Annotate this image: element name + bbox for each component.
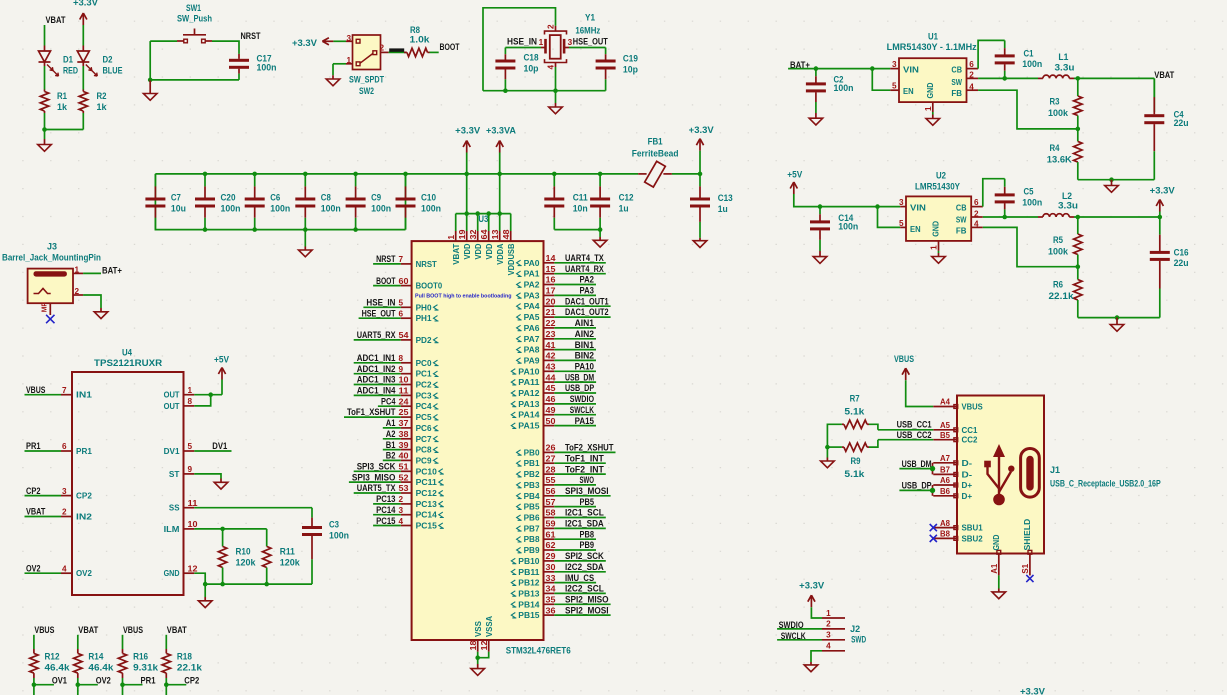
- svg-text:A5: A5: [940, 421, 950, 430]
- svg-text:ToF2_INT: ToF2_INT: [565, 464, 604, 474]
- svg-text:53: 53: [399, 484, 409, 493]
- svg-text:OUT: OUT: [164, 402, 180, 411]
- svg-text:LMR51430Y - 1.1MHz: LMR51430Y - 1.1MHz: [887, 42, 978, 52]
- svg-text:5: 5: [892, 82, 897, 91]
- svg-text:USB_CC2: USB_CC2: [897, 430, 932, 440]
- svg-text:PA14: PA14: [518, 411, 540, 420]
- svg-text:+3.3V: +3.3V: [455, 126, 480, 136]
- svg-text:10: 10: [188, 520, 198, 529]
- svg-text:U4: U4: [122, 348, 132, 358]
- svg-text:EN: EN: [910, 225, 921, 234]
- svg-text:PC3: PC3: [416, 391, 432, 400]
- svg-text:C8: C8: [321, 193, 331, 203]
- svg-text:21: 21: [546, 308, 556, 317]
- svg-text:CC2: CC2: [962, 436, 978, 445]
- svg-text:1k: 1k: [57, 102, 67, 112]
- svg-text:VIN: VIN: [903, 65, 919, 74]
- svg-text:+3.3V: +3.3V: [799, 580, 824, 590]
- svg-text:USB_DP: USB_DP: [902, 481, 932, 491]
- svg-text:16: 16: [546, 276, 556, 285]
- svg-text:12: 12: [480, 640, 489, 650]
- svg-text:A6: A6: [940, 476, 950, 485]
- svg-text:D1: D1: [63, 55, 73, 65]
- svg-text:L2: L2: [1062, 191, 1072, 201]
- svg-text:SPI3_MISO: SPI3_MISO: [352, 472, 396, 482]
- svg-text:PA3: PA3: [580, 286, 595, 296]
- svg-text:SPI2_MISO: SPI2_MISO: [565, 595, 609, 605]
- svg-text:PB15: PB15: [518, 611, 540, 620]
- svg-text:FB: FB: [951, 89, 962, 98]
- svg-text:Barrel_Jack_MountingPin: Barrel_Jack_MountingPin: [2, 252, 101, 262]
- svg-text:PA2: PA2: [580, 275, 595, 285]
- svg-text:SW: SW: [956, 215, 967, 224]
- svg-text:VBAT: VBAT: [1154, 70, 1175, 80]
- svg-text:+3.3V: +3.3V: [1150, 185, 1175, 195]
- svg-text:3: 3: [892, 60, 897, 69]
- svg-text:PC14: PC14: [416, 511, 438, 520]
- svg-text:15: 15: [546, 265, 556, 274]
- svg-text:2: 2: [380, 44, 385, 53]
- svg-text:NRST: NRST: [241, 31, 262, 41]
- svg-text:R9: R9: [851, 456, 861, 466]
- svg-text:VDD: VDD: [474, 243, 483, 259]
- svg-text:R6: R6: [1053, 280, 1063, 290]
- svg-text:AIN1: AIN1: [575, 318, 594, 328]
- svg-text:SW: SW: [951, 78, 962, 87]
- svg-text:2: 2: [399, 495, 404, 504]
- svg-text:38: 38: [399, 430, 409, 439]
- svg-text:DAC1_OUT1: DAC1_OUT1: [565, 296, 609, 306]
- svg-text:OV2: OV2: [26, 563, 41, 573]
- svg-text:J2: J2: [850, 624, 860, 634]
- svg-text:PC15: PC15: [376, 516, 395, 526]
- svg-text:+5V: +5V: [787, 170, 802, 180]
- svg-text:8: 8: [399, 354, 404, 363]
- svg-text:39: 39: [399, 441, 409, 450]
- svg-text:C18: C18: [524, 52, 539, 62]
- svg-text:VBUS: VBUS: [123, 625, 143, 635]
- svg-text:40: 40: [399, 452, 409, 461]
- svg-text:ToF2_XSHUT: ToF2_XSHUT: [565, 443, 614, 453]
- svg-text:C6: C6: [270, 193, 280, 203]
- svg-text:1: 1: [539, 38, 544, 47]
- svg-text:PA6: PA6: [524, 324, 540, 333]
- svg-text:R7: R7: [850, 393, 860, 403]
- svg-text:U1: U1: [928, 32, 938, 42]
- svg-text:C16: C16: [1174, 248, 1189, 258]
- svg-text:100n: 100n: [371, 204, 391, 214]
- svg-text:59: 59: [546, 520, 556, 529]
- svg-text:BIN1: BIN1: [575, 340, 594, 350]
- svg-text:OV2: OV2: [96, 676, 111, 686]
- svg-text:USB_DM: USB_DM: [565, 372, 594, 382]
- svg-text:PC14: PC14: [376, 505, 395, 515]
- svg-text:PC11: PC11: [416, 478, 438, 487]
- svg-text:I2C2_SCL: I2C2_SCL: [565, 584, 604, 594]
- svg-text:100n: 100n: [257, 62, 277, 72]
- svg-text:B8: B8: [940, 530, 950, 539]
- svg-text:A7: A7: [940, 454, 950, 463]
- svg-text:PC1: PC1: [416, 370, 432, 379]
- svg-text:VDD: VDD: [485, 243, 494, 259]
- svg-text:PA12: PA12: [518, 389, 540, 398]
- svg-text:LMR51430Y: LMR51430Y: [915, 182, 960, 192]
- svg-text:PR1: PR1: [141, 676, 156, 686]
- svg-text:PA3: PA3: [524, 291, 540, 300]
- svg-text:1: 1: [75, 265, 80, 274]
- svg-text:C13: C13: [718, 193, 733, 203]
- svg-text:5.1k: 5.1k: [844, 407, 864, 417]
- svg-text:PC2: PC2: [416, 381, 432, 390]
- svg-text:23: 23: [546, 330, 556, 339]
- svg-text:46: 46: [546, 395, 556, 404]
- svg-text:PB11: PB11: [518, 568, 540, 577]
- svg-text:VBAT: VBAT: [78, 625, 99, 635]
- svg-text:22: 22: [546, 319, 556, 328]
- svg-text:43: 43: [546, 363, 556, 372]
- svg-text:6: 6: [399, 309, 404, 318]
- svg-text:CC1: CC1: [962, 426, 978, 435]
- svg-text:VBAT: VBAT: [46, 15, 67, 25]
- svg-text:10p: 10p: [524, 64, 540, 74]
- svg-text:SPI2_MOSI: SPI2_MOSI: [565, 605, 609, 615]
- svg-text:3: 3: [399, 506, 404, 515]
- svg-text:EN: EN: [903, 87, 914, 96]
- svg-text:VSSA: VSSA: [485, 616, 494, 637]
- svg-text:USB_DM: USB_DM: [902, 459, 932, 469]
- svg-text:10p: 10p: [623, 64, 639, 74]
- svg-text:PB5: PB5: [524, 503, 540, 512]
- svg-text:22u: 22u: [1174, 118, 1189, 128]
- svg-text:1.0k: 1.0k: [410, 34, 430, 44]
- svg-text:100n: 100n: [421, 204, 441, 214]
- svg-text:VBAT: VBAT: [452, 243, 461, 264]
- svg-text:R16: R16: [133, 652, 148, 662]
- svg-text:PA11: PA11: [518, 378, 540, 387]
- svg-text:PB3: PB3: [524, 481, 540, 490]
- svg-text:CP2: CP2: [26, 486, 41, 496]
- svg-text:6: 6: [974, 198, 979, 207]
- svg-text:120k: 120k: [280, 558, 300, 568]
- svg-text:2: 2: [969, 71, 974, 80]
- svg-text:56: 56: [546, 487, 556, 496]
- svg-text:+5V: +5V: [214, 355, 229, 365]
- svg-text:50: 50: [546, 417, 556, 426]
- svg-text:PA15: PA15: [575, 416, 594, 426]
- svg-text:27: 27: [546, 454, 556, 463]
- svg-text:62: 62: [546, 541, 556, 550]
- svg-text:PH1: PH1: [416, 314, 432, 323]
- svg-text:VBUS: VBUS: [894, 354, 914, 364]
- svg-text:46.4k: 46.4k: [88, 662, 113, 672]
- svg-text:PB9: PB9: [580, 540, 595, 550]
- svg-text:3: 3: [62, 487, 67, 496]
- svg-text:SWCLK: SWCLK: [570, 405, 595, 415]
- svg-text:26: 26: [546, 444, 556, 453]
- svg-text:C9: C9: [371, 193, 381, 203]
- svg-text:+3.3V: +3.3V: [1020, 686, 1045, 695]
- svg-text:BOOT: BOOT: [440, 42, 460, 52]
- svg-text:SPI2_SCK: SPI2_SCK: [565, 551, 604, 561]
- svg-text:B6: B6: [940, 487, 950, 496]
- svg-text:SW_SPDT: SW_SPDT: [349, 75, 385, 85]
- svg-text:6: 6: [969, 60, 974, 69]
- svg-text:22.1k: 22.1k: [177, 662, 202, 672]
- svg-text:7: 7: [399, 255, 404, 264]
- svg-text:UART5_RX: UART5_RX: [357, 330, 396, 340]
- svg-text:C10: C10: [421, 193, 436, 203]
- svg-text:100n: 100n: [270, 204, 290, 214]
- svg-text:1: 1: [930, 245, 939, 250]
- svg-text:41: 41: [546, 341, 556, 350]
- svg-text:HSE_OUT: HSE_OUT: [573, 37, 609, 47]
- svg-text:C7: C7: [171, 193, 181, 203]
- svg-text:J1: J1: [1050, 465, 1060, 475]
- svg-text:PB8: PB8: [524, 535, 540, 544]
- svg-text:U2: U2: [936, 171, 946, 181]
- svg-text:+3.3V: +3.3V: [73, 0, 98, 8]
- svg-text:34: 34: [546, 585, 556, 594]
- svg-text:D-: D-: [962, 459, 973, 468]
- svg-text:100n: 100n: [329, 530, 349, 540]
- svg-text:A2: A2: [386, 429, 396, 439]
- svg-text:33: 33: [546, 574, 556, 583]
- svg-text:11: 11: [188, 499, 199, 508]
- svg-text:CB: CB: [951, 65, 962, 74]
- svg-text:B1: B1: [386, 440, 396, 450]
- svg-text:PA7: PA7: [524, 335, 540, 344]
- svg-text:49: 49: [546, 406, 556, 415]
- svg-text:PR1: PR1: [26, 441, 41, 451]
- svg-text:I2C2_SDA: I2C2_SDA: [565, 562, 604, 572]
- svg-text:C12: C12: [619, 192, 634, 202]
- svg-text:PC12: PC12: [416, 489, 438, 498]
- svg-text:GND: GND: [992, 534, 1001, 550]
- svg-text:2: 2: [547, 24, 556, 29]
- svg-text:DV1: DV1: [164, 447, 180, 456]
- svg-text:UART5_TX: UART5_TX: [357, 483, 396, 493]
- svg-text:SBU2: SBU2: [962, 534, 984, 543]
- svg-text:1: 1: [346, 56, 351, 65]
- svg-text:4: 4: [969, 83, 974, 92]
- svg-text:USB_DP: USB_DP: [565, 383, 594, 393]
- svg-text:PB14: PB14: [518, 600, 540, 609]
- svg-text:ILM: ILM: [164, 525, 180, 534]
- svg-text:CP2: CP2: [76, 492, 92, 501]
- svg-text:PA0: PA0: [524, 259, 540, 268]
- svg-text:2: 2: [826, 620, 831, 629]
- svg-text:A1: A1: [990, 563, 999, 573]
- svg-text:17: 17: [546, 287, 556, 296]
- svg-text:C20: C20: [221, 193, 236, 203]
- svg-text:PB5: PB5: [580, 497, 595, 507]
- svg-text:B5: B5: [940, 431, 950, 440]
- svg-text:51: 51: [399, 463, 409, 472]
- svg-text:ADC1_IN3: ADC1_IN3: [357, 375, 396, 385]
- svg-text:PA15: PA15: [518, 422, 540, 431]
- svg-text:R5: R5: [1053, 235, 1063, 245]
- svg-text:ToF1_INT: ToF1_INT: [565, 453, 604, 463]
- svg-text:PB13: PB13: [518, 589, 540, 598]
- svg-text:D2: D2: [103, 55, 113, 65]
- svg-text:60: 60: [399, 277, 409, 286]
- svg-text:Y1: Y1: [585, 13, 595, 23]
- svg-text:100k: 100k: [1048, 246, 1068, 256]
- svg-text:R12: R12: [45, 652, 60, 662]
- svg-text:4: 4: [826, 642, 831, 651]
- svg-text:9: 9: [188, 465, 193, 474]
- svg-text:A8: A8: [940, 519, 950, 528]
- svg-text:28: 28: [546, 465, 556, 474]
- svg-text:13: 13: [491, 229, 500, 239]
- svg-text:1: 1: [447, 235, 456, 240]
- svg-text:CB: CB: [956, 203, 967, 212]
- svg-text:S1: S1: [1021, 563, 1030, 573]
- svg-text:DV1: DV1: [212, 441, 227, 451]
- svg-text:54: 54: [399, 331, 409, 340]
- svg-text:RED: RED: [63, 66, 78, 76]
- svg-text:B2: B2: [386, 451, 396, 461]
- svg-text:37: 37: [399, 419, 409, 428]
- svg-text:7: 7: [62, 386, 67, 395]
- svg-text:22.1k: 22.1k: [1049, 291, 1074, 301]
- svg-text:2: 2: [62, 508, 67, 517]
- svg-text:A4: A4: [940, 398, 950, 407]
- svg-text:AIN2: AIN2: [575, 329, 594, 339]
- svg-text:C5: C5: [1024, 187, 1034, 197]
- svg-text:PC7: PC7: [416, 435, 432, 444]
- svg-text:OV1: OV1: [52, 676, 67, 686]
- svg-text:PC6: PC6: [416, 424, 432, 433]
- svg-text:VIN: VIN: [910, 203, 926, 212]
- svg-text:C1: C1: [1024, 49, 1034, 59]
- svg-text:OV2: OV2: [76, 569, 92, 578]
- svg-text:B7: B7: [940, 466, 950, 475]
- svg-text:5: 5: [188, 442, 193, 451]
- svg-text:PC0: PC0: [416, 359, 432, 368]
- svg-text:VDDA: VDDA: [496, 243, 505, 264]
- svg-text:29: 29: [546, 552, 556, 561]
- svg-text:100n: 100n: [221, 204, 241, 214]
- svg-text:PC13: PC13: [376, 494, 395, 504]
- svg-text:VSS: VSS: [474, 620, 483, 637]
- svg-text:VBUS: VBUS: [962, 403, 984, 412]
- svg-text:SBU1: SBU1: [962, 524, 984, 533]
- svg-text:HSE_OUT: HSE_OUT: [362, 308, 396, 318]
- svg-text:9: 9: [399, 365, 404, 374]
- svg-text:SW1: SW1: [186, 3, 201, 13]
- svg-text:12: 12: [188, 564, 198, 573]
- svg-text:UART4_RX: UART4_RX: [565, 264, 604, 274]
- svg-text:SS: SS: [169, 504, 180, 513]
- svg-text:VDD: VDD: [463, 243, 472, 259]
- svg-text:PB0: PB0: [524, 448, 540, 457]
- svg-text:PB1: PB1: [524, 459, 540, 468]
- svg-text:+3.3V: +3.3V: [689, 125, 714, 135]
- svg-text:R14: R14: [88, 652, 103, 662]
- svg-text:C11: C11: [573, 192, 588, 202]
- svg-text:45: 45: [546, 384, 556, 393]
- svg-text:FB: FB: [956, 226, 967, 235]
- svg-text:PC5: PC5: [416, 413, 432, 422]
- svg-text:SHIELD: SHIELD: [1023, 518, 1032, 550]
- svg-text:PA13: PA13: [518, 400, 540, 409]
- svg-text:PB2: PB2: [524, 470, 540, 479]
- svg-text:I2C1_SCL: I2C1_SCL: [565, 508, 604, 518]
- svg-text:100n: 100n: [838, 222, 858, 232]
- svg-text:VBAT: VBAT: [167, 625, 188, 635]
- svg-text:R2: R2: [97, 91, 107, 101]
- svg-text:PB12: PB12: [518, 579, 540, 588]
- svg-text:5: 5: [899, 219, 904, 228]
- svg-text:L1: L1: [1058, 52, 1068, 62]
- svg-text:52: 52: [399, 473, 409, 482]
- svg-text:PB10: PB10: [518, 557, 540, 566]
- svg-text:ADC1_IN2: ADC1_IN2: [357, 364, 396, 374]
- svg-text:24: 24: [399, 397, 409, 406]
- svg-text:16MHz: 16MHz: [575, 26, 601, 36]
- svg-text:UART4_TX: UART4_TX: [565, 253, 604, 263]
- svg-text:PB8: PB8: [580, 529, 595, 539]
- svg-text:PA4: PA4: [524, 302, 540, 311]
- svg-text:I2C1_SDA: I2C1_SDA: [565, 519, 604, 529]
- svg-text:+3.3V: +3.3V: [292, 38, 317, 48]
- svg-text:5.1k: 5.1k: [844, 469, 864, 479]
- svg-text:35: 35: [546, 596, 556, 605]
- svg-text:BOOT0: BOOT0: [416, 282, 443, 291]
- svg-text:SW2: SW2: [359, 86, 374, 96]
- svg-text:PC13: PC13: [416, 500, 438, 509]
- svg-text:VBAT: VBAT: [26, 507, 46, 517]
- svg-text:BOOT: BOOT: [376, 276, 396, 286]
- svg-text:SWO: SWO: [580, 475, 595, 485]
- svg-text:42: 42: [546, 352, 556, 361]
- svg-text:R10: R10: [236, 547, 251, 557]
- svg-text:ADC1_IN4: ADC1_IN4: [357, 386, 396, 396]
- svg-text:HSE_IN: HSE_IN: [366, 298, 395, 308]
- svg-text:36: 36: [546, 606, 556, 615]
- svg-text:R18: R18: [177, 652, 192, 662]
- svg-text:A1: A1: [386, 418, 396, 428]
- svg-text:PC4: PC4: [381, 396, 396, 406]
- svg-text:4: 4: [399, 517, 404, 526]
- svg-text:SWDIO: SWDIO: [570, 394, 594, 404]
- svg-text:PA9: PA9: [524, 356, 540, 365]
- svg-text:PH0: PH0: [416, 303, 432, 312]
- svg-text:PB6: PB6: [524, 514, 540, 523]
- svg-text:SW_Push: SW_Push: [177, 14, 212, 24]
- svg-text:11: 11: [399, 387, 410, 396]
- svg-text:C19: C19: [623, 53, 638, 63]
- svg-text:4: 4: [547, 65, 556, 70]
- svg-text:ToF1_XSHUT: ToF1_XSHUT: [347, 407, 396, 417]
- svg-text:MP: MP: [39, 302, 48, 312]
- svg-text:VBUS: VBUS: [34, 625, 54, 635]
- svg-text:9.31k: 9.31k: [133, 662, 158, 672]
- svg-text:55: 55: [546, 476, 556, 485]
- svg-text:R4: R4: [1050, 143, 1060, 153]
- svg-text:30: 30: [546, 563, 556, 572]
- svg-text:PB4: PB4: [524, 492, 540, 501]
- svg-text:Pull BOOT high to enable bootl: Pull BOOT high to enable bootloading: [415, 293, 512, 299]
- svg-text:PA8: PA8: [524, 346, 540, 355]
- svg-text:10u: 10u: [171, 204, 186, 214]
- svg-text:PA10: PA10: [575, 362, 594, 372]
- svg-text:USB_C_Receptacle_USB2.0_16P: USB_C_Receptacle_USB2.0_16P: [1050, 479, 1161, 489]
- svg-text:IMU_CS: IMU_CS: [565, 573, 594, 583]
- svg-text:1k: 1k: [97, 102, 107, 112]
- svg-text:25: 25: [399, 408, 409, 417]
